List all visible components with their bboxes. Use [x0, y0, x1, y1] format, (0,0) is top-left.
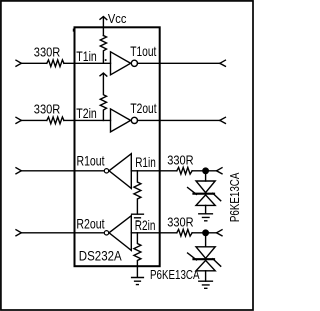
wire R1out row (left) [21, 170, 104, 172]
resistor pulldown R2 (internal) [134, 233, 141, 277]
terminal chevron T2out [220, 117, 226, 123]
bubble R2 [104, 231, 108, 235]
op-amp buffer T2 [111, 109, 131, 132]
TVS diode D1 P6KE13CA [188, 174, 221, 214]
ground TVS D2 [199, 281, 213, 288]
svg-text:T1in: T1in [76, 48, 97, 64]
junction dot R1 [202, 167, 209, 174]
ground TVS D1 [199, 214, 213, 221]
svg-text:T1out: T1out [130, 43, 156, 59]
Vcc power symbol [100, 17, 107, 36]
resistor 330R R1 [177, 167, 192, 174]
wire R1 right side [160, 170, 177, 172]
bubble R1 [104, 169, 108, 173]
terminal chevron T1in [16, 60, 21, 66]
terminal chevron R1in [217, 168, 223, 174]
wire T2in row (left) [21, 119, 47, 121]
wire T2out [138, 119, 220, 121]
terminal chevron R1out [16, 168, 21, 174]
wire R1in row [131, 170, 159, 172]
svg-text:330R: 330R [167, 152, 193, 167]
terminal chevron T2in [16, 117, 21, 123]
wire T1in row (left) [21, 62, 47, 64]
IC body DS232A [75, 27, 160, 266]
svg-text:330R: 330R [34, 44, 61, 59]
svg-text:R2in: R2in [135, 217, 156, 233]
resistor pullup T2 (internal) [100, 73, 106, 120]
svg-text:P6KE13CA: P6KE13CA [227, 173, 242, 223]
svg-text:Vcc: Vcc [108, 11, 127, 26]
ground R2 internal [132, 278, 144, 285]
svg-text:DS232A: DS232A [79, 247, 122, 263]
svg-text:330R: 330R [34, 101, 61, 116]
svg-text:R1in: R1in [135, 154, 156, 170]
bubble T2 [131, 117, 137, 123]
resistor 330R T2 [47, 117, 64, 124]
svg-text:330R: 330R [167, 214, 193, 229]
TVS diode D2 P6KE13CA [188, 236, 221, 281]
ground R1 internal [132, 214, 144, 221]
wire R2out row (left) [21, 232, 104, 234]
op-amp buffer R1 [109, 154, 131, 189]
wire to junction [192, 170, 216, 172]
svg-text:R1out: R1out [77, 153, 105, 169]
resistor pullup T1 (internal) [100, 36, 106, 64]
op-amp buffer T1 [111, 52, 131, 75]
junction dot R2 [202, 229, 209, 236]
wire to junction [192, 232, 216, 234]
wire R2 right side [160, 232, 177, 234]
resistor pulldown R1 (internal) [134, 171, 141, 214]
junction dot T1in [105, 59, 107, 61]
svg-text:P6KE13CA: P6KE13CA [150, 267, 200, 282]
terminal chevron R2in [217, 230, 223, 236]
border frame [1, 1, 253, 310]
resistor 330R T1 [47, 60, 64, 67]
terminal chevron R2out [16, 230, 21, 236]
terminal chevron T1out [220, 60, 226, 66]
wire T2in to chip [64, 119, 111, 121]
wire T1in to chip [64, 62, 111, 64]
pin tick chip left edge [73, 29, 75, 32]
svg-text:T2in: T2in [76, 105, 97, 121]
power arrow T2 pullup [100, 73, 107, 76]
wire R2in row [131, 232, 159, 234]
resistor 330R R2 [177, 229, 192, 236]
bubble T1 [131, 60, 137, 66]
wire T1out [138, 62, 220, 64]
svg-text:R2out: R2out [76, 215, 104, 231]
op-amp buffer R2 [109, 216, 131, 251]
svg-text:T2out: T2out [130, 100, 156, 116]
